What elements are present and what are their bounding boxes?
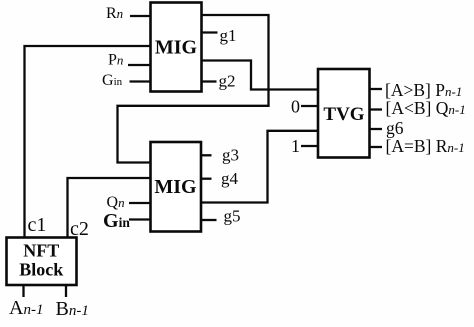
wire NFT bottom stub A [22, 285, 24, 297]
svg-text:MIG: MIG [155, 37, 198, 59]
svg-text:g6: g6 [386, 118, 404, 138]
wire Rn stub [130, 15, 151, 17]
svg-text:g4: g4 [221, 169, 239, 188]
wire Gin2 stub [129, 218, 150, 220]
svg-text:NFT: NFT [23, 241, 59, 261]
svg-text:c2: c2 [70, 218, 89, 240]
wire TVG out A<B stub [370, 108, 382, 110]
svg-text:g3: g3 [222, 146, 239, 165]
wire TVG out g6 stub [370, 128, 382, 130]
wire g5 stub [201, 219, 217, 221]
wire g3 stub [201, 154, 212, 156]
svg-text:0: 0 [291, 96, 300, 116]
svg-text:Qn: Qn [107, 194, 125, 211]
svg-text:Block: Block [19, 260, 63, 280]
wire TVG out A>B stub [370, 88, 382, 90]
wire NFT bottom stub B [65, 285, 67, 297]
svg-text:g5: g5 [224, 206, 241, 225]
wire 1 stub [301, 145, 318, 147]
wire g2 stub [201, 80, 217, 82]
wire Qn stub [129, 202, 150, 204]
svg-text:TVG: TVG [323, 104, 364, 125]
block MIG U2 [151, 142, 202, 232]
svg-text:g2: g2 [219, 72, 236, 91]
svg-text:c1: c1 [28, 214, 47, 236]
wire MIG2 output to TVG lower input [201, 131, 318, 203]
wire Pn stub [128, 64, 151, 66]
wire c2: NFT top to MIG2 left input [68, 178, 151, 237]
block TVG U3 [318, 69, 370, 158]
svg-text:Pn: Pn [108, 52, 123, 69]
wire TVG out A=B stub [370, 146, 382, 148]
block MIG U1 [151, 3, 202, 92]
wire MIG1 output to TVG upper input [201, 61, 318, 90]
wire g1 stub [201, 31, 218, 33]
svg-text:MIG: MIG [154, 176, 197, 198]
wire g4 stub [201, 178, 212, 180]
wire feedback MIG1 top output wrapping to MIG2 upper-left input [118, 15, 269, 163]
wire c1: NFT top to MIG1 left input [25, 46, 151, 237]
wire 0 stub [301, 105, 318, 107]
block NFT [7, 238, 77, 286]
svg-text:g1: g1 [220, 26, 237, 45]
svg-text:Rn: Rn [106, 5, 123, 22]
svg-text:1: 1 [291, 136, 300, 156]
wire Gin stub [130, 80, 152, 82]
